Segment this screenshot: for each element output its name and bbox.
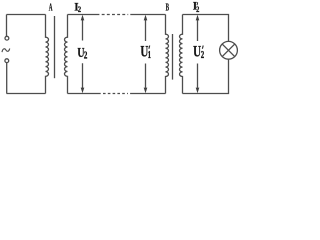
wire bottom-right (183, 59, 229, 93)
svg-text:A: A (49, 2, 53, 13)
svg-text:2: 2 (78, 5, 82, 14)
wire bottom before B (130, 93, 165, 95)
AC source terminal lower (5, 59, 9, 63)
voltage arrow U2' heads (196, 15, 200, 21)
wire bottom secondary solid (68, 93, 101, 95)
wire left rail lower (6, 63, 8, 94)
svg-text:2: 2 (201, 49, 205, 61)
transformer T2 primary winding (166, 15, 169, 94)
svg-text:U: U (193, 43, 201, 60)
svg-text:2: 2 (196, 5, 200, 14)
voltage arrow U2 heads (81, 15, 85, 21)
wire left rail upper (6, 15, 8, 37)
svg-text:B: B (166, 2, 170, 14)
transformer T2 secondary winding (180, 15, 183, 94)
voltage arrow U2 shaft (82, 20, 84, 89)
lamp cross (222, 44, 235, 57)
transformer T1 core (54, 16, 56, 78)
wire top transmission dashed (102, 14, 129, 16)
transformer T1 primary winding (46, 15, 49, 94)
wire top-left (7, 14, 46, 16)
lamp circle (220, 41, 238, 59)
voltage arrow U1' heads (144, 15, 148, 21)
voltage arrow U1' shaft (145, 20, 147, 88)
transformer T2 core (172, 34, 174, 80)
wire bottom-left (7, 93, 46, 95)
wire top before B (130, 14, 165, 16)
svg-text:2: 2 (84, 50, 88, 62)
voltage arrow U2' shaft (197, 20, 199, 88)
transformer T1 secondary winding (65, 15, 68, 94)
AC source terminal upper (5, 36, 9, 40)
AC source tilde (2, 49, 10, 53)
wire top secondary solid (68, 14, 100, 16)
wire top-right (183, 15, 229, 42)
svg-text:1: 1 (148, 49, 151, 61)
wire bottom transmission dashed (103, 93, 128, 95)
